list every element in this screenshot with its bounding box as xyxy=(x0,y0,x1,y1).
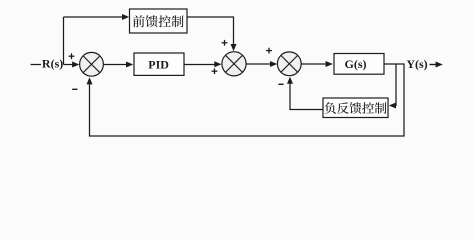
summing junction S3 xyxy=(277,52,301,76)
block PID controller xyxy=(134,53,184,75)
sign + (PID into S2) xyxy=(212,70,218,72)
wire PID to summer S2 xyxy=(184,64,216,66)
sign - (outer loop into S1) xyxy=(72,88,77,90)
sign + (S2 into S3) xyxy=(266,50,272,52)
wire to feedforward controller xyxy=(64,16,124,18)
wire input stub left of R(s) xyxy=(31,64,42,66)
svg-text:R(s): R(s) xyxy=(42,57,63,71)
sign - (feedback into S3) xyxy=(278,83,283,85)
summing junction S2 xyxy=(222,52,246,76)
block feedforward controller 前馈控制 xyxy=(130,9,188,33)
wire feedforward output into summer S2 xyxy=(187,17,234,46)
block negative feedback controller 负反馈控制 xyxy=(323,98,388,118)
wire takeoff into negative feedback controller xyxy=(394,64,396,106)
svg-text:PID: PID xyxy=(148,58,169,72)
wire branch riser to feedforward path xyxy=(63,17,65,65)
wire S1 to PID xyxy=(103,64,127,66)
wire output arrow xyxy=(430,64,438,66)
sign + (feedforward into S2) xyxy=(222,42,228,44)
wire outer feedback loop xyxy=(90,64,405,136)
svg-text:G(s): G(s) xyxy=(345,57,367,71)
block plant G(s) xyxy=(334,54,384,75)
wire R(s) into summer S1 xyxy=(64,64,73,66)
svg-text:Y(s): Y(s) xyxy=(406,57,427,71)
wire G(s) output to Y(s) xyxy=(384,63,405,65)
wire S3 to G(s) xyxy=(301,63,326,65)
summing junction S1 xyxy=(80,52,104,76)
sign + (R(s) into S1) xyxy=(69,55,75,57)
wire S2 to summer S3 xyxy=(246,63,271,65)
wire feedback controller output into S3 xyxy=(290,83,323,110)
